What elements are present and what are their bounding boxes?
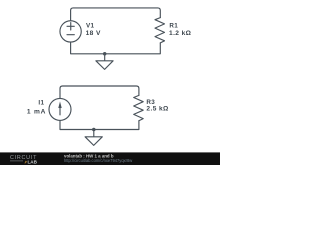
- resistor R3: [134, 95, 144, 120]
- svg-text:1.2 kΩ: 1.2 kΩ: [169, 30, 192, 37]
- svg-text:I1: I1: [38, 99, 44, 106]
- svg-text:18 V: 18 V: [86, 30, 101, 37]
- junction node circuit 2 ground: [92, 128, 96, 132]
- junction node circuit 1 ground: [103, 52, 107, 56]
- voltage source V1: [60, 21, 81, 42]
- ground (circuit 1): [96, 54, 113, 70]
- current source I1: [49, 98, 71, 120]
- svg-text:1 mA: 1 mA: [27, 108, 46, 115]
- wire top of circuit 1 (V1 top to R1 top): [71, 8, 161, 21]
- ground (circuit 2): [85, 130, 102, 146]
- svg-text:R1: R1: [169, 23, 178, 30]
- resistor R1: [155, 18, 165, 43]
- wire bottom of circuit 1 (V1 bottom to R1 bottom): [71, 42, 161, 54]
- wire bottom of circuit 2 (I1 bottom to R3 bottom): [60, 120, 139, 129]
- CircuitLab logo: [10, 155, 38, 165]
- arrow of current source I1: [58, 101, 61, 108]
- svg-text:2.5 kΩ: 2.5 kΩ: [146, 106, 169, 113]
- svg-text:LAB: LAB: [28, 159, 38, 164]
- svg-text:V1: V1: [86, 23, 95, 30]
- wire top of circuit 2 (I1 top to R3 top): [60, 86, 139, 98]
- svg-text:http://circuitlab.com/c/nxe794: http://circuitlab.com/c/nxe7947yqxr8w: [64, 158, 132, 163]
- (bar): [0, 152, 220, 165]
